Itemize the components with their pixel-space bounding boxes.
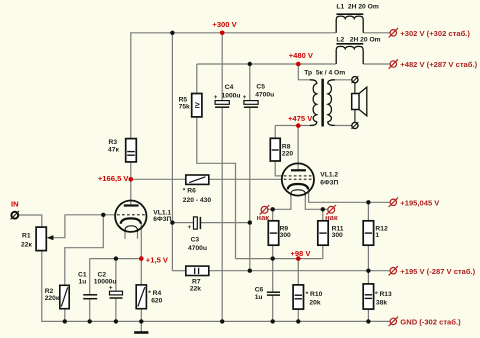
svg-text:+1,5 V: +1,5 V <box>146 255 169 264</box>
wire: C5 bottom lead down to +195V rail <box>249 108 251 271</box>
svg-text:4700u: 4700u <box>188 245 207 252</box>
junction: C3 right / C5 rail <box>248 220 252 224</box>
svg-text:C4: C4 <box>225 84 234 91</box>
capacitor C2 (electrolytic) <box>109 285 123 298</box>
svg-text:220к: 220к <box>45 295 60 302</box>
svg-text:220: 220 <box>282 151 293 158</box>
wire: +480V branch down and over to transformer primary top <box>298 64 314 80</box>
wire: IN terminal to R1 top <box>18 215 41 227</box>
svg-text:+475 V: +475 V <box>288 114 313 123</box>
svg-text:* R13: * R13 <box>375 291 392 298</box>
wire: R3 top lead from top rail <box>130 32 132 138</box>
VL1.1 cathode arc <box>121 218 141 223</box>
wire: L2 to +482V terminal <box>363 63 390 65</box>
svg-text:10000u: 10000u <box>94 279 117 286</box>
terminal нак left <box>260 205 270 215</box>
svg-text:220 - 430: 220 - 430 <box>183 197 212 204</box>
wire: coupling from R6 right to VL1.2 control grid g1 <box>209 178 282 180</box>
svg-text:75k: 75k <box>179 103 190 110</box>
wire: C4 top lead from +300V dot <box>221 33 223 101</box>
svg-text:300: 300 <box>332 232 343 239</box>
resistor R4 (adjustable) <box>136 285 146 309</box>
junction: left rail / C3 left <box>170 220 174 224</box>
svg-text:+300 V: +300 V <box>212 20 237 29</box>
wire: R4 bottom lead to GND rail <box>140 309 142 322</box>
wire: R7 left lead from rail <box>172 270 185 272</box>
wire: C6 bottom lead to GND rail <box>272 296 274 322</box>
resistor R7 with II power mark <box>186 266 209 275</box>
svg-text:1: 1 <box>375 232 379 239</box>
junction: +1,5V rail / C2 <box>114 256 118 260</box>
svg-text:+195 V (-287 V стаб.): +195 V (-287 V стаб.) <box>400 267 475 276</box>
wire: C1 bottom lead to GND rail <box>89 299 91 321</box>
wire: R1 wiper to grid riser <box>52 215 65 238</box>
wire: C1 top lead <box>89 259 91 294</box>
wire: transformer secondary top to speaker terminal <box>331 79 352 81</box>
svg-text:L2 2H 20 Om: L2 2H 20 Om <box>336 37 380 44</box>
svg-text:+302 V (+302 стаб.): +302 V (+302 стаб.) <box>400 29 470 38</box>
junction: нак right <box>321 207 325 211</box>
resistor R1 (potentiometer body) <box>36 227 53 251</box>
svg-text:* R4: * R4 <box>148 290 161 297</box>
resistor R8 <box>270 138 280 161</box>
node +475V dot <box>296 123 301 128</box>
wire: C2 bottom lead to GND rail <box>115 299 117 322</box>
wire: R9 bottom lead down through +98V node to C6 <box>272 245 274 291</box>
svg-text:1u: 1u <box>79 279 87 286</box>
svg-text:+482 V (+287 V стаб.): +482 V (+287 V стаб.) <box>400 60 477 69</box>
node +1,5V dot <box>139 256 144 261</box>
wire: R8 bottom lead to VL1.2 screen grid g2 <box>275 161 282 176</box>
VL1.2 control grid g1 dashed line <box>284 178 312 180</box>
svg-text:* R6: * R6 <box>183 188 196 195</box>
speaker terminal bottom <box>352 122 359 129</box>
tube VL1.2 (pentode section) <box>282 163 314 195</box>
VL1.1 grid dashed line <box>117 214 145 216</box>
junction: GND / R2 <box>63 319 67 323</box>
svg-text:620: 620 <box>151 298 162 305</box>
junction: нак left <box>271 207 275 211</box>
junction: GND / C6 <box>271 319 275 323</box>
svg-text:GND (-302 стаб.): GND (-302 стаб.) <box>400 318 461 327</box>
wire: R12 bottom lead to +195V rail <box>367 245 369 271</box>
wire: VL1.1 heater stub right <box>137 232 139 239</box>
resistor R13 <box>363 284 373 309</box>
svg-text:4700u: 4700u <box>255 92 274 99</box>
junction: GND / C1 <box>88 319 92 323</box>
capacitor C5 (electrolytic) <box>243 95 258 107</box>
junction: GND / C4 <box>220 319 224 323</box>
junction: cathode rail / R12 top <box>366 200 370 204</box>
transformer Tp secondary winding <box>328 80 335 126</box>
VL1.2 cathode arc <box>288 184 308 189</box>
node +98V dot <box>296 256 301 261</box>
speaker horn <box>359 87 367 116</box>
svg-text:L1 2H 20 Om: L1 2H 20 Om <box>336 4 378 11</box>
wire: grid node jog down-left to R2 top <box>65 215 104 285</box>
svg-text:+: + <box>109 285 113 291</box>
terminal нак right <box>326 205 336 215</box>
wire: R4 top lead <box>140 259 142 285</box>
svg-text:47к: 47к <box>108 147 119 154</box>
VL1.1 heater filament <box>125 226 138 232</box>
L1 core bar <box>336 13 363 15</box>
junction: GND / R13 <box>366 319 370 323</box>
svg-text:+166,5 V: +166,5 V <box>98 174 130 183</box>
speaker body <box>352 94 359 110</box>
VL1.2 screen grid g2 dashed line <box>284 175 312 177</box>
svg-text:20k: 20k <box>309 299 320 306</box>
transformer Tp primary winding <box>310 80 317 126</box>
wire: left vertical rail from +300V rail down to R7 <box>171 33 173 271</box>
junction: GND / R10 <box>296 319 300 323</box>
wire: R11 bottom lead <box>322 245 324 258</box>
L2 core bar <box>336 43 363 45</box>
wire: VL1.2 heater right pin to нак terminal <box>305 196 327 210</box>
VL1.2 anode bar <box>291 169 306 171</box>
wire: L1 to +302V terminal <box>363 32 390 34</box>
wire: R8 top lead <box>274 126 276 139</box>
junction: +195V rail / C5 bottom <box>248 269 252 273</box>
node +166,5V dot <box>129 177 134 182</box>
wire: ground symbol stub <box>140 321 142 331</box>
wire: +300V top rail from R3 corner to L1 <box>131 32 336 34</box>
wire: GND bottom rail <box>42 320 390 322</box>
wire: R5 top lead <box>196 64 198 94</box>
VL1.2 heater filament <box>291 190 305 196</box>
svg-text:C6: C6 <box>255 287 264 294</box>
svg-text:1000u: 1000u <box>222 92 241 99</box>
wire: R10 bottom lead to GND rail <box>297 309 299 321</box>
speaker terminal top <box>352 76 359 83</box>
speaker leads <box>354 83 356 123</box>
wire: C5 top lead from +482 rail dot <box>249 64 251 100</box>
terminal +482V <box>389 59 398 68</box>
resistor R12 <box>363 221 373 245</box>
capacitor C3 (electrolytic, horizontal) <box>188 217 201 231</box>
VL1.1 anode bar <box>124 204 139 206</box>
junction: GND / C2 <box>114 319 118 323</box>
wire: R12 top lead <box>367 202 369 221</box>
terminal +302V <box>389 28 398 37</box>
svg-text:IV: IV <box>194 102 201 109</box>
svg-text:22k: 22k <box>190 286 201 293</box>
wire: VL1.1 cathode lead down to +1,5V node <box>140 223 142 259</box>
svg-text:+: + <box>188 225 192 231</box>
resistor R5 with IV power mark <box>192 94 202 117</box>
wire: C3 left lead from rail <box>172 222 193 224</box>
svg-text:+480 V: +480 V <box>289 51 314 60</box>
wire: C4 bottom lead down to GND rail <box>221 108 223 322</box>
wire: C2 top lead <box>115 259 117 291</box>
svg-text:6Ф3П: 6Ф3П <box>153 216 171 223</box>
svg-text:300: 300 <box>280 232 291 239</box>
resistor R6 (adjustable, horizontal) <box>186 175 209 184</box>
wire: R13 top lead <box>367 271 369 284</box>
svg-text:38k: 38k <box>376 299 387 306</box>
resistor R11 <box>318 221 328 245</box>
terminal +195V <box>389 266 398 275</box>
svg-text:нак: нак <box>325 213 338 222</box>
svg-text:R3: R3 <box>109 139 118 146</box>
svg-text:Тр 5к / 4 Om: Тр 5к / 4 Om <box>304 70 345 77</box>
svg-text:6Ф3П: 6Ф3П <box>320 179 338 186</box>
wire: transformer secondary bottom to speaker terminal <box>331 125 352 127</box>
svg-text:VL1.2: VL1.2 <box>320 171 338 178</box>
wire: +98V screen rail <box>236 258 323 260</box>
svg-text:R7: R7 <box>192 279 201 286</box>
wire: R1 bottom lead down to GND rail <box>41 251 43 322</box>
wire: R2 bottom lead to GND rail <box>64 309 66 322</box>
wire: VL1.2 cathode lead to +195,045V terminal <box>309 187 390 203</box>
resistor R9 <box>268 221 278 245</box>
node +300V dot <box>220 31 225 36</box>
svg-text:* R10: * R10 <box>306 291 323 298</box>
junction: grid node of VL1.1 <box>101 213 105 217</box>
wire: VL1.1 anode node +166,5V to R6 left <box>131 178 186 180</box>
wire: C3 right lead to C5 rail <box>200 222 249 224</box>
wire: +195V rail from R7 to terminal <box>209 270 390 272</box>
wire: R5 bottom jog down right and down to +98V node <box>197 117 236 259</box>
resistor R2 <box>60 285 69 308</box>
IN terminal <box>11 211 19 219</box>
svg-text:R2: R2 <box>45 288 54 295</box>
inductor L1 <box>336 14 363 33</box>
wire: VL1.1 grid wire <box>65 214 116 216</box>
capacitor C6 <box>267 292 280 295</box>
R1 wiper arrowhead <box>47 235 54 240</box>
capacitor C1 <box>83 295 97 299</box>
ground symbol <box>134 331 148 334</box>
junction: GND / R4 ground symbol <box>139 319 143 323</box>
svg-text:22к: 22к <box>21 241 32 248</box>
inductor L2 <box>336 44 363 64</box>
svg-text:C3: C3 <box>191 236 200 243</box>
svg-text:R1: R1 <box>22 233 31 240</box>
terminal +195,045V <box>389 198 398 207</box>
svg-text:1u: 1u <box>255 294 263 301</box>
wire: R13 bottom lead to GND rail <box>367 309 369 321</box>
wire: +475V horizontal from R8 top to transformer primary bottom <box>275 125 314 127</box>
tube VL1.1 (triode section) <box>115 201 146 233</box>
junction: +195V rail / R12-R13 <box>366 269 370 273</box>
wire: R9 top lead from нак junction <box>272 209 274 221</box>
wire: second rail from R5 corner to L2 <box>197 63 336 65</box>
wire: R11 top lead from нак junction <box>322 209 324 221</box>
junction: top rail / left rail <box>170 31 174 35</box>
svg-text:нак: нак <box>256 213 269 222</box>
svg-text:+: + <box>243 95 247 101</box>
node +480V dot <box>296 62 301 67</box>
svg-text:+: + <box>214 95 218 101</box>
wire: R10 top lead from +98V node <box>297 259 299 285</box>
svg-text:+195,045 V: +195,045 V <box>400 198 440 207</box>
wire: VL1.2 heater left pin to нак terminal <box>268 196 291 210</box>
capacitor C4 (electrolytic) <box>214 95 229 107</box>
junction: +482 rail / C5 <box>248 62 252 66</box>
transformer Tp core <box>321 79 324 127</box>
svg-text:C5: C5 <box>256 83 265 90</box>
wire: R3 bottom lead down to VL1.1 anode <box>130 162 132 205</box>
svg-text:+98 V: +98 V <box>290 249 311 258</box>
wire: VL1.2 anode lead from +475V dot <box>297 126 299 170</box>
wire: VL1.1 heater stub left <box>124 232 126 239</box>
svg-text:IN: IN <box>11 199 19 208</box>
wire: +1,5V cathode rail to C1 <box>90 258 142 260</box>
resistor R3 <box>126 139 137 162</box>
resistor R10 <box>293 285 303 309</box>
terminal GND <box>389 317 398 326</box>
junction: +98V / R9 <box>271 256 275 260</box>
